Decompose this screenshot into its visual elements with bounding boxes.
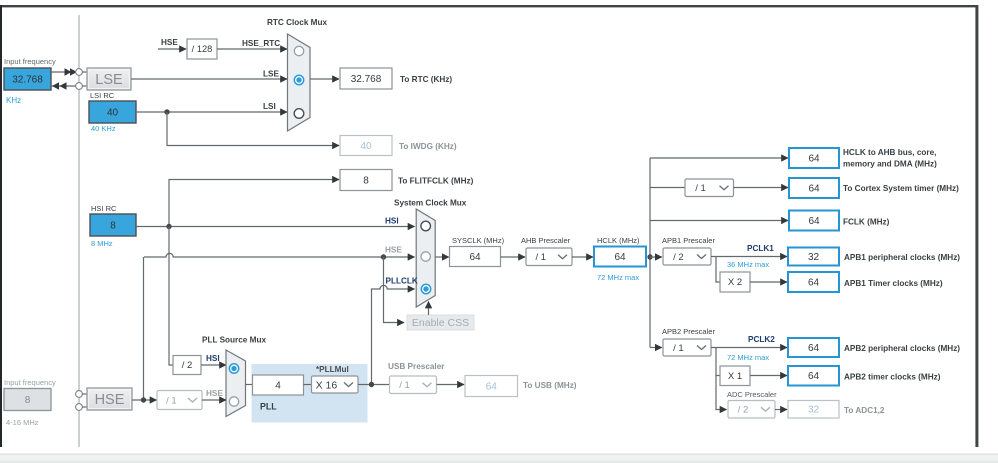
svg-text:/ 2: / 2 bbox=[673, 252, 684, 263]
svg-text:LSI RC: LSI RC bbox=[90, 91, 115, 100]
wire HSE output to PLL prescaler bbox=[132, 399, 157, 401]
To IWDG output box 40 (inactive) bbox=[340, 136, 392, 156]
svg-text:64: 64 bbox=[808, 371, 820, 382]
wire LSE input to divider with double right arrows bbox=[51, 71, 79, 73]
LSE oscillator box bbox=[87, 68, 131, 90]
wire bus to HCLK-to-AHB box bbox=[650, 157, 788, 159]
radio HSI input (unselected) bbox=[421, 221, 431, 231]
svg-text:LSE: LSE bbox=[263, 70, 279, 79]
svg-text:PLL: PLL bbox=[260, 402, 277, 412]
wire ADC prescaler to ADC box bbox=[775, 409, 787, 411]
radio HSE_RTC input (unselected) bbox=[294, 46, 303, 55]
svg-text:To IWDG (KHz): To IWDG (KHz) bbox=[399, 142, 457, 151]
svg-text:PCLK2: PCLK2 bbox=[748, 335, 775, 344]
svg-text:X 2: X 2 bbox=[728, 277, 742, 288]
wire APB2 prescaler to PCLK2 box bbox=[711, 347, 787, 349]
To USB box 64 (inactive) bbox=[465, 376, 518, 397]
wire /128 to RTC mux bbox=[217, 48, 287, 50]
svg-text:APB1 Timer clocks (MHz): APB1 Timer clocks (MHz) bbox=[844, 279, 943, 288]
APB2 peripheral clocks box 64 bbox=[788, 338, 839, 357]
junction HSE to CSS node bbox=[381, 254, 386, 259]
svg-text:RTC Clock Mux: RTC Clock Mux bbox=[267, 18, 327, 27]
svg-text:memory and DMA (MHz): memory and DMA (MHz) bbox=[843, 160, 937, 169]
radio LSE input (selected) bbox=[294, 75, 303, 84]
svg-text:64: 64 bbox=[808, 153, 820, 164]
wire USB prescaler to USB box bbox=[437, 384, 465, 386]
dropdown Cortex system timer prescaler / 1 bbox=[685, 179, 734, 197]
svg-text:USB Prescaler: USB Prescaler bbox=[388, 362, 445, 371]
wire X1 to APB2 timer box bbox=[750, 375, 787, 377]
PLL block background panel bbox=[252, 364, 368, 423]
svg-text:HSI: HSI bbox=[206, 354, 220, 363]
svg-text:HCLK to AHB bus, core,: HCLK to AHB bus, core, bbox=[843, 148, 936, 157]
To ADC1,2 box 32 (inactive) bbox=[788, 401, 839, 419]
wire stubs from connection circles to LSE box bbox=[82, 71, 87, 73]
svg-text:/ 1: / 1 bbox=[695, 183, 706, 194]
wire AHB prescaler to HCLK bbox=[572, 256, 593, 258]
svg-text:X 16: X 16 bbox=[316, 379, 338, 391]
svg-text:32: 32 bbox=[808, 405, 820, 416]
wire Enable CSS up-arrow into mux bottom bbox=[428, 302, 430, 316]
svg-text:40: 40 bbox=[107, 107, 119, 118]
junction HCLK node bbox=[647, 254, 652, 259]
svg-text:To RTC (KHz): To RTC (KHz) bbox=[400, 75, 452, 84]
svg-text:HSE_RTC: HSE_RTC bbox=[242, 39, 280, 48]
bottom horizontal scrollbar track bbox=[0, 454, 998, 463]
To Cortex System timer box 64 bbox=[789, 178, 839, 198]
SYSCLK value box 64 bbox=[450, 247, 501, 267]
To RTC output box 32.768 bbox=[340, 68, 392, 89]
dropdown HSE PLL prescaler / 1 (inactive) bbox=[157, 391, 202, 410]
radio HSI input (selected) bbox=[229, 364, 238, 373]
wire HCLK distribution bus vertical bbox=[649, 158, 651, 348]
svg-text:8: 8 bbox=[363, 175, 369, 186]
divider /128 box bbox=[187, 39, 217, 59]
svg-text:Input frequency: Input frequency bbox=[4, 57, 56, 66]
wire X2 to APB1 timer box bbox=[750, 281, 787, 283]
radio HSE input (unselected) bbox=[229, 397, 238, 406]
wire LSI branch down to IWDG bbox=[167, 112, 339, 146]
HSI RC box 8 bbox=[90, 214, 136, 236]
connection point circle HSE upper bbox=[76, 391, 83, 398]
dropdown ADC prescaler / 2 (inactive) bbox=[728, 401, 775, 419]
wire LSE to RTC mux bbox=[131, 78, 287, 80]
svg-text:PLL Source Mux: PLL Source Mux bbox=[202, 336, 266, 345]
svg-text:64: 64 bbox=[808, 343, 820, 354]
APB1 timer clocks box 64 bbox=[788, 272, 839, 292]
junction HSI node bbox=[166, 224, 171, 229]
HSE input frequency box 8 (inactive) bbox=[4, 389, 51, 411]
dropdown APB1 prescaler / 2 bbox=[663, 248, 711, 265]
junction LSI branch bbox=[164, 109, 169, 114]
svg-text:PCLK1: PCLK1 bbox=[747, 244, 774, 253]
svg-text:X 1: X 1 bbox=[728, 371, 742, 382]
svg-text:/ 2: / 2 bbox=[182, 360, 193, 371]
svg-text:To USB (MHz): To USB (MHz) bbox=[523, 381, 577, 390]
APB1 peripheral clocks box 32 bbox=[788, 248, 839, 266]
mux PLL Source Mux trapezoid bbox=[226, 350, 246, 417]
mux System Clock Mux trapezoid bbox=[416, 209, 435, 307]
LSE input frequency box 32.768 bbox=[4, 68, 51, 90]
svg-text:APB2 peripheral clocks (MHz): APB2 peripheral clocks (MHz) bbox=[844, 344, 960, 353]
multiplier X2 box bbox=[720, 272, 750, 292]
svg-text:KHz: KHz bbox=[6, 96, 21, 105]
wire SYSCLK to AHB prescaler bbox=[501, 256, 526, 258]
wire HSE junction vertical up to system mux bbox=[143, 257, 145, 400]
svg-text:64: 64 bbox=[614, 252, 626, 263]
wire HSE junction down to Enable CSS bbox=[384, 257, 405, 323]
radio LSI input (unselected) bbox=[294, 109, 304, 119]
HCLK value box 64 bbox=[594, 247, 646, 267]
wire LSI to RTC mux bbox=[136, 111, 287, 113]
svg-text:72 MHz max: 72 MHz max bbox=[597, 273, 639, 282]
junction PLLCLK node bbox=[369, 382, 374, 387]
Enable CSS button bbox=[407, 315, 474, 330]
wire PLLCLK up to system clock mux with hop over CSS wire bbox=[372, 285, 415, 384]
wire system mux output SYSCLK bbox=[435, 256, 449, 258]
vertical divider line between input column and diagram bbox=[78, 15, 80, 447]
svg-text:40: 40 bbox=[360, 141, 372, 152]
HSE oscillator box bbox=[87, 388, 132, 410]
svg-text:8: 8 bbox=[25, 395, 31, 406]
svg-text:40 KHz: 40 KHz bbox=[91, 124, 116, 133]
radio HSE input (unselected) bbox=[421, 252, 430, 261]
wire HSE to /128 divider bbox=[158, 48, 186, 50]
svg-text:APB1 Prescaler: APB1 Prescaler bbox=[662, 236, 715, 245]
wire HSI branch up to FLITFCLK bbox=[169, 180, 339, 227]
svg-text:HSE: HSE bbox=[385, 246, 402, 255]
wire HCLK to APB1 prescaler bbox=[650, 256, 662, 258]
svg-text:HSI: HSI bbox=[385, 216, 399, 225]
wire HSE prescaler to PLL source mux bbox=[202, 399, 226, 401]
wire PLLMul output to USB prescaler bbox=[358, 384, 390, 386]
svg-text:ADC Prescaler: ADC Prescaler bbox=[727, 390, 777, 399]
wire APB2 branch down to ADC prescaler bbox=[716, 376, 727, 410]
PLL input value box 4 bbox=[253, 375, 304, 395]
wire divider to LSE input with double left arrows bbox=[51, 85, 79, 87]
svg-text:/ 1: / 1 bbox=[673, 343, 684, 354]
svg-text:HSE: HSE bbox=[206, 389, 223, 398]
svg-text:APB2 Prescaler: APB2 Prescaler bbox=[662, 327, 715, 336]
svg-text:64: 64 bbox=[808, 216, 820, 227]
radio PLLCLK input (selected) bbox=[421, 284, 430, 293]
svg-text:HCLK (MHz): HCLK (MHz) bbox=[597, 236, 640, 245]
wire bus to FCLK box bbox=[650, 220, 788, 222]
svg-text:36 MHz max: 36 MHz max bbox=[727, 260, 769, 269]
svg-text:32.768: 32.768 bbox=[12, 74, 43, 85]
svg-text:SYSCLK (MHz): SYSCLK (MHz) bbox=[452, 236, 505, 245]
APB2 timer clocks box 64 bbox=[788, 366, 839, 386]
svg-text:System Clock Mux: System Clock Mux bbox=[394, 199, 467, 208]
divider /2 box (PLL HSI path) bbox=[173, 356, 201, 375]
svg-text:64: 64 bbox=[808, 183, 820, 194]
wire HSI to system clock mux bbox=[136, 226, 415, 228]
connection point circle HSE lower bbox=[76, 404, 83, 411]
multiplier X1 box bbox=[720, 366, 750, 386]
wire /2 to PLL source mux bbox=[201, 364, 226, 366]
svg-text:/ 1: / 1 bbox=[535, 252, 546, 263]
svg-text:HSE: HSE bbox=[95, 392, 125, 408]
svg-text:8: 8 bbox=[110, 220, 116, 231]
svg-text:8 MHz: 8 MHz bbox=[91, 239, 113, 248]
svg-text:HSI RC: HSI RC bbox=[91, 204, 117, 213]
wire RTC mux output to RTC box bbox=[310, 78, 339, 80]
svg-text:LSI: LSI bbox=[263, 102, 276, 111]
panel frame left border bbox=[0, 5, 2, 447]
wire HSE to system clock mux with hop over HSI vertical bbox=[144, 253, 415, 257]
wire APB2 branch to X1 multiplier bbox=[716, 348, 720, 376]
svg-text:Enable CSS: Enable CSS bbox=[412, 317, 469, 329]
svg-text:4: 4 bbox=[275, 380, 281, 391]
dropdown USB prescaler / 1 (inactive) bbox=[390, 376, 437, 394]
svg-text:To Cortex System timer (MHz): To Cortex System timer (MHz) bbox=[843, 184, 959, 193]
svg-text:64: 64 bbox=[486, 381, 498, 392]
HCLK to AHB output box 64 bbox=[789, 148, 839, 168]
svg-text:APB1 peripheral clocks (MHz): APB1 peripheral clocks (MHz) bbox=[844, 253, 960, 262]
svg-text:64: 64 bbox=[469, 252, 481, 263]
svg-text:LSE: LSE bbox=[95, 72, 123, 88]
wire bus to APB2 prescaler bbox=[650, 347, 662, 349]
svg-text:PLLCLK: PLLCLK bbox=[386, 277, 418, 286]
svg-text:*PLLMul: *PLLMul bbox=[316, 365, 349, 374]
mux RTC Clock Mux trapezoid bbox=[288, 34, 311, 131]
dropdown AHB prescaler / 1 bbox=[526, 248, 572, 266]
wire HSI branch down to /2 divider bbox=[169, 227, 173, 366]
wire APB1 prescaler to PCLK1 box bbox=[711, 256, 787, 258]
svg-text:/ 2: / 2 bbox=[738, 405, 749, 416]
svg-text:HSE: HSE bbox=[161, 38, 178, 47]
svg-text:32.768: 32.768 bbox=[351, 74, 382, 85]
svg-text:Input frequency: Input frequency bbox=[4, 378, 56, 387]
svg-text:APB2 timer clocks (MHz): APB2 timer clocks (MHz) bbox=[844, 373, 941, 382]
svg-text:4-16 MHz: 4-16 MHz bbox=[6, 418, 39, 427]
wire bus to Cortex prescaler bbox=[650, 187, 685, 189]
panel frame right border / scrollbar bbox=[975, 5, 978, 447]
wire APB1 branch to X2 multiplier bbox=[716, 257, 720, 283]
svg-text:72 MHz max: 72 MHz max bbox=[727, 353, 769, 362]
junction HSE node bbox=[141, 397, 146, 402]
panel frame top border bbox=[0, 5, 978, 7]
svg-text:/ 128: / 128 bbox=[192, 44, 213, 54]
svg-text:/ 1: / 1 bbox=[399, 380, 410, 391]
svg-text:32: 32 bbox=[808, 252, 820, 263]
LSI RC box 40 bbox=[89, 101, 136, 123]
wire Cortex prescaler to Cortex timer box bbox=[734, 187, 789, 189]
svg-text:FCLK (MHz): FCLK (MHz) bbox=[843, 218, 890, 227]
wire stubs from connection circles to HSE box bbox=[82, 393, 87, 395]
dropdown APB2 prescaler / 1 bbox=[663, 339, 711, 356]
FCLK output box 64 bbox=[789, 211, 839, 231]
svg-text:/ 1: / 1 bbox=[166, 395, 177, 406]
To FLITFCLK output box 8 bbox=[340, 170, 392, 191]
wire PLL mux output to PLL input box bbox=[246, 384, 253, 386]
svg-text:AHB Prescaler: AHB Prescaler bbox=[521, 236, 571, 245]
wire PLL input box to PLLMul bbox=[304, 384, 312, 386]
dropdown PLLMul X 16 bbox=[312, 376, 359, 393]
connection point circle upper bbox=[76, 69, 83, 76]
svg-text:To ADC1,2: To ADC1,2 bbox=[844, 406, 885, 415]
svg-text:64: 64 bbox=[808, 277, 820, 288]
svg-text:To FLITFCLK (MHz): To FLITFCLK (MHz) bbox=[398, 177, 474, 186]
connection point circle lower bbox=[76, 83, 83, 90]
